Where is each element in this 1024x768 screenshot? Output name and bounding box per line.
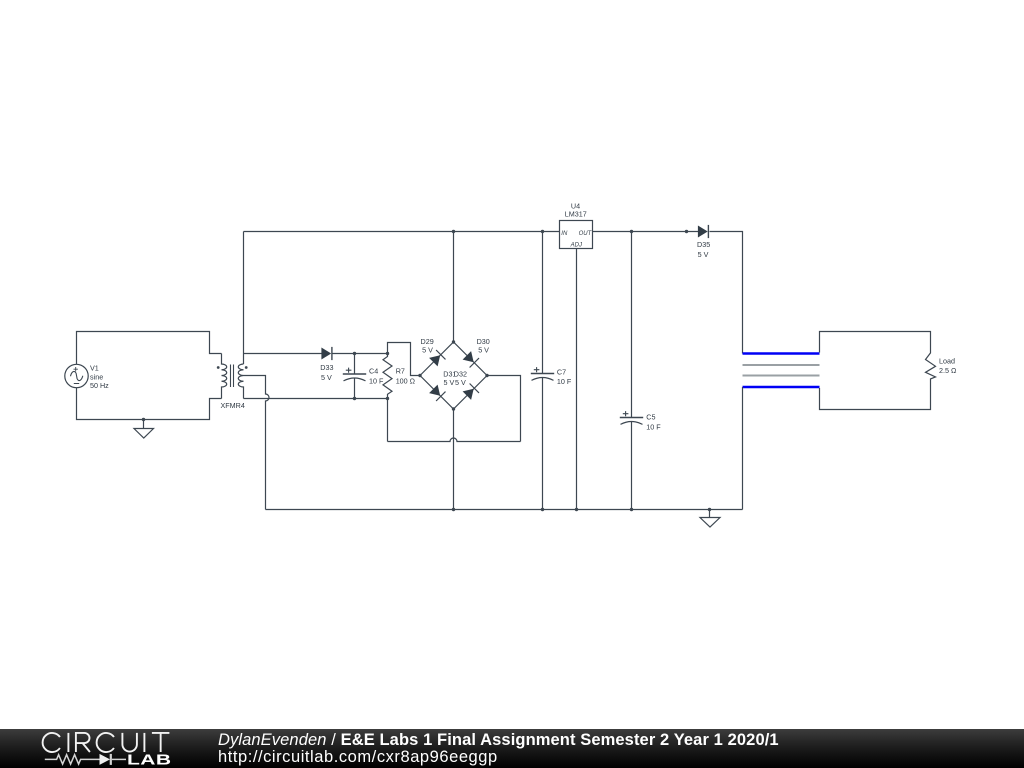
wire load bottom to rail bbox=[742, 387, 744, 510]
junction C4 top bbox=[353, 352, 356, 355]
wire bottom rail bbox=[266, 509, 743, 511]
junction bridge bottom bbox=[452, 407, 455, 410]
junction bottom rail C5 bbox=[630, 508, 633, 511]
label C7 bbox=[557, 367, 572, 386]
footer bar bbox=[0, 729, 1024, 768]
labels bridge diodes bbox=[421, 337, 490, 387]
label U4 LM317 bbox=[565, 202, 587, 219]
wire R7 top to bridge left node bbox=[388, 343, 421, 376]
wire secondary to D33 bbox=[244, 353, 322, 355]
wire D35 cathode to load corner bbox=[710, 232, 743, 354]
svg-text:100 Ω: 100 Ω bbox=[396, 377, 416, 386]
svg-text:5 V: 5 V bbox=[455, 378, 466, 387]
wire secondary bottom lead bbox=[244, 398, 388, 400]
ground (output) bbox=[700, 510, 720, 528]
wire top rail (IN side) bbox=[244, 231, 560, 233]
label V1 value bbox=[90, 364, 109, 391]
diode D33 bbox=[321, 347, 387, 360]
capacitor C7 bbox=[531, 232, 554, 510]
label R7 bbox=[396, 367, 416, 386]
junction V1-ground bbox=[142, 418, 145, 421]
ground (V1) bbox=[134, 420, 154, 439]
footer line 1 bbox=[218, 732, 779, 749]
junction bridge right bbox=[485, 374, 488, 377]
wire top rail (OUT side) bbox=[593, 231, 699, 233]
svg-text:D35: D35 bbox=[697, 240, 710, 249]
load subcircuit box with resistor bbox=[820, 332, 936, 410]
svg-text:5 V: 5 V bbox=[444, 378, 455, 387]
voltage source V1 bbox=[65, 364, 88, 387]
wire secondary top to rail bbox=[243, 232, 245, 365]
junction rail bridge-top bbox=[452, 230, 455, 233]
capacitor C4 bbox=[343, 354, 366, 399]
label C5 bbox=[646, 413, 661, 432]
junction bottom rail ADJ bbox=[575, 508, 578, 511]
junction bottom rail bridge bbox=[452, 508, 455, 511]
wire center tap with hop bbox=[244, 376, 270, 510]
bridge diamond arms bbox=[420, 342, 487, 409]
svg-text:10 F: 10 F bbox=[646, 423, 661, 432]
diode D30 bbox=[463, 351, 479, 367]
svg-text:10 F: 10 F bbox=[557, 377, 572, 386]
svg-text:LAB: LAB bbox=[127, 751, 171, 767]
wire load top (blue) bbox=[743, 352, 820, 355]
svg-text:D33: D33 bbox=[320, 363, 333, 372]
svg-text:LM317: LM317 bbox=[565, 210, 587, 219]
svg-text:10 F: 10 F bbox=[369, 377, 384, 386]
svg-text:IN: IN bbox=[561, 231, 568, 237]
junction C4 bottom bbox=[353, 397, 356, 400]
diode D29 bbox=[429, 350, 445, 366]
junction R7 top bbox=[386, 352, 389, 355]
resistor R7 bbox=[383, 354, 392, 399]
wire V1 bottom loop bbox=[77, 388, 222, 420]
svg-text:Load: Load bbox=[939, 357, 955, 366]
CircuitLab logo bbox=[0, 729, 200, 768]
label Load bbox=[939, 357, 957, 376]
svg-text:5 V: 5 V bbox=[478, 346, 489, 355]
svg-text:5 V: 5 V bbox=[321, 373, 332, 382]
svg-text:5 V: 5 V bbox=[422, 346, 433, 355]
svg-text:V1: V1 bbox=[90, 364, 99, 373]
junction rail C5 bbox=[630, 230, 633, 233]
wire bridge bottom loop with hop bbox=[388, 438, 521, 442]
wire ADJ to bottom rail bbox=[576, 249, 578, 510]
diode D32 bbox=[463, 384, 479, 400]
svg-text:OUT: OUT bbox=[579, 231, 593, 237]
wire load bottom (blue) bbox=[743, 386, 820, 389]
wire bridge top to rail bbox=[453, 232, 455, 343]
regulator U4 LM317 box bbox=[560, 221, 593, 249]
wire R7 bottom to bridge loop bbox=[387, 399, 389, 442]
junction bottom rail C7 bbox=[541, 508, 544, 511]
junction bridge left bbox=[418, 374, 421, 377]
label D35 bbox=[697, 240, 710, 259]
svg-text:2.5 Ω: 2.5 Ω bbox=[939, 366, 957, 375]
svg-text:5 V: 5 V bbox=[698, 250, 709, 259]
svg-text:R7: R7 bbox=[396, 367, 405, 376]
capacitor C5 bbox=[620, 232, 643, 510]
label D33 bbox=[320, 363, 333, 382]
load pin stub 2 bbox=[743, 364, 820, 366]
svg-text:XFMR4: XFMR4 bbox=[221, 401, 245, 410]
svg-text:50 Hz: 50 Hz bbox=[90, 381, 109, 390]
diode D35 bbox=[698, 225, 709, 238]
svg-text:C4: C4 bbox=[369, 367, 378, 376]
wire bridge right to loop bbox=[487, 376, 521, 442]
junction ground output bbox=[708, 508, 711, 511]
wire bridge bottom to rail bbox=[453, 409, 455, 510]
diode D31 bbox=[429, 385, 445, 401]
junction rail pre-D35 bbox=[685, 230, 688, 233]
svg-text:ADJ: ADJ bbox=[570, 242, 583, 248]
junction bridge top bbox=[452, 340, 455, 343]
junction rail C7 bbox=[541, 230, 544, 233]
footer line 2 bbox=[218, 749, 498, 766]
junction R7 bottom bbox=[386, 397, 389, 400]
wire V1 top loop bbox=[77, 332, 222, 365]
transformer XFMR4 bbox=[217, 354, 248, 399]
svg-text:C7: C7 bbox=[557, 367, 566, 376]
svg-text:C5: C5 bbox=[646, 413, 655, 422]
load pin stub 3 bbox=[743, 375, 820, 377]
label C4 bbox=[369, 367, 384, 386]
